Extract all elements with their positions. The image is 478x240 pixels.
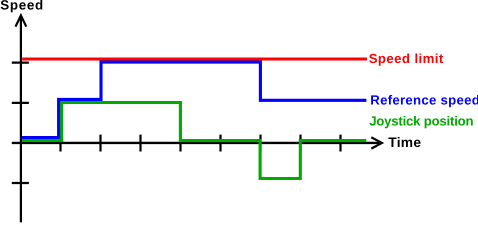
svg-text:Speed limit: Speed limit <box>369 51 444 66</box>
x tick 6 <box>259 135 261 152</box>
red speed limit line <box>22 58 367 61</box>
green joystick position curve <box>22 103 366 179</box>
y tick 3 <box>12 182 29 184</box>
x tick 7 <box>299 135 301 152</box>
x-axis <box>12 142 379 144</box>
x tick 4 <box>179 135 181 152</box>
x tick 8 <box>339 135 341 152</box>
blue reference speed curve <box>22 62 366 137</box>
svg-text:Time: Time <box>388 135 421 150</box>
y tick 2 <box>12 102 29 104</box>
y-axis <box>20 16 22 222</box>
x-axis arrowhead <box>371 137 382 148</box>
svg-text:Speed: Speed <box>0 0 44 13</box>
x tick 3 <box>139 135 141 152</box>
x tick 5 <box>219 135 221 152</box>
y-axis arrowhead <box>16 15 27 26</box>
y tick 1 <box>12 61 29 63</box>
svg-text:Reference speed: Reference speed <box>370 92 478 107</box>
x tick 1 <box>59 135 61 152</box>
x tick 2 <box>99 135 101 152</box>
svg-text:Joystick position: Joystick position <box>369 113 473 128</box>
